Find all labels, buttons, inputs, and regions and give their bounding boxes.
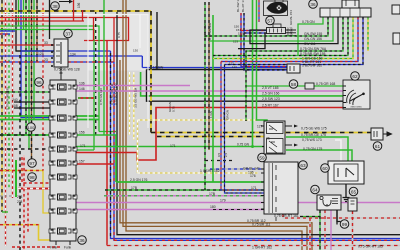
svg-text:176: 176 [250,174,256,178]
wire BL-RT stub y34 [0,33,10,35]
wire RT-WS vertical x24 bottom [23,155,25,250]
svg-text:171: 171 [80,144,86,148]
wire BL to box37 pin y56 and beyond [0,56,287,68]
wire SW 110 elbow and comp62 black feed [147,12,344,101]
svg-text:2,5: 2,5 [224,152,228,157]
svg-text:146: 146 [79,87,85,91]
wire GN-SW 17B y190 [105,189,265,191]
wire SW to box37 pin y51 [16,50,54,52]
A1 row fuse y211 [58,208,67,214]
circle 61 [373,142,382,151]
wire GE-RT elbow2 bottom [0,225,50,240]
svg-text:240: 240 [12,98,18,102]
wire GE-SW border vertical x151 [150,11,152,133]
svg-text:0,75 GN-WS 190: 0,75 GN-WS 190 [6,87,10,110]
wire VT x331 [330,210,332,250]
svg-text:1 GR-RT 162: 1 GR-RT 162 [252,246,272,250]
svg-text:0,75 BR 111: 0,75 BR 111 [252,223,270,227]
wire GN right pin y119.5 [76,119,99,121]
wire GR-BL dashed y170.8 [210,168,264,170]
wire BR-SW dash vertical x209 [208,2,210,150]
wire GN vertical x104 to comp62 green [103,0,105,135]
svg-text:100: 100 [28,125,35,130]
wire GN vertical x18.5 joins green y26 [18,0,20,26]
wire BL-WS dash vertical x221 [221,62,265,191]
A1 row fuse y102 [58,99,67,105]
comp58 box [287,64,300,73]
A1 row fuse y87 [58,84,67,90]
svg-text:BL-SW 112: BL-SW 112 [236,0,240,12]
right edge small box2 [393,33,400,44]
svg-text:113: 113 [232,65,237,69]
svg-text:61: 61 [375,144,381,149]
circle 100 [27,123,36,132]
svg-text:GR-GN: GR-GN [226,110,230,120]
circle 59 [258,153,267,162]
circle 38 [51,2,60,11]
wire RT dashed y170.5 with GE under [0,170,43,172]
svg-text:59: 59 [259,156,265,161]
svg-text:1 10-SW: 1 10-SW [150,66,164,70]
wire BL-RT 161 y63 [221,17,358,62]
wire BL-SW dash conn57 y35 to comp58 [244,13,287,70]
wire WS horizontal y14.5 [0,14,88,16]
svg-text:GN-GN 156: GN-GN 156 [304,37,322,41]
svg-text:GR-BL 154: GR-BL 154 [289,10,293,25]
svg-text:171: 171 [251,186,257,190]
comp59 pins [261,126,292,147]
wire GN to comp60 b [286,150,352,161]
svg-text:156: 156 [79,131,85,135]
wire GN-SW 76A y51 [246,17,343,121]
wire RT-WS vertical x12.5 [12,0,14,198]
svg-text:36: 36 [310,2,316,7]
wire SW dashed into box pin y149 [0,148,50,150]
light interior region [89,15,149,71]
wire SW comp65 to circle99 [337,210,341,222]
svg-text:0,75: 0,75 [117,32,121,38]
wire RT-GN dashed y98 from box [78,97,94,99]
wire BL-SW dash vertical x224.5 [225,65,266,194]
wire GE-SW vertical x2 [1,0,3,212]
wire BL-SW 162 y67 [225,17,364,65]
pump M57 icon [264,1,288,16]
wire GN row135 elbow down [76,135,116,182]
wire GN vertical x213 long [212,15,214,182]
wire GN-SW vertical x26 to box pin row135 [25,0,27,135]
svg-text:60: 60 [322,166,328,171]
wire RT row163 to comp62 [76,108,343,161]
wire BL-RT y62 through box37 [0,61,114,63]
wire VT y195.5 [104,195,265,197]
top right partial box [392,5,400,14]
svg-text:63: 63 [300,163,306,168]
wire GN horizontal y26 [0,26,116,132]
svg-text:Funk: Funk [64,246,71,250]
svg-text:130: 130 [133,49,138,53]
svg-text:62: 62 [352,74,358,79]
wire GN vertical x34 [33,0,35,120]
wire SW 111 y46 [238,17,338,49]
wire SW-dash vertical x95.7 [95,12,97,135]
wire RT vertical x114 [113,18,115,63]
svg-text:0,75 GE-WS 175: 0,75 GE-WS 175 [301,127,327,131]
A1 row fuse y177 [58,174,67,180]
svg-text:33: 33 [44,41,48,45]
A1 bottom stubs [56,241,70,245]
A1 pin marks left [51,86,54,230]
A1 row fuse y149 [58,146,67,152]
A1 row fuse y197 [58,194,67,200]
wire RT horizontal y17.5 [0,18,129,41]
A1 pin marks right [73,86,76,230]
svg-text:136: 136 [77,2,81,8]
wire WS 173 to comp60 [335,140,341,161]
svg-text:171: 171 [170,144,176,148]
svg-text:17B: 17B [131,186,138,190]
wire RT-WS dashed bottom y247 [12,246,60,248]
wire RT-WS group dash 97-98 [22,157,50,183]
wire GN 0,75 y24 [298,17,323,56]
wire GE-WS vertical x133.8 [133,72,135,140]
svg-text:0,75: 0,75 [287,32,293,36]
comp64 motor box [317,195,341,210]
wire GN horizontal y29.5 [0,30,94,151]
svg-text:134: 134 [70,53,76,57]
wire BL-RT dash conn57 y32 to comp58 [241,13,287,67]
wire GE-WS vertical x129.5 [129,72,131,135]
GR168 inline box [305,83,314,89]
wire BL-RT vertical x114b to bottom dashed [114,62,400,240]
wire VT long y202.5 [75,202,400,204]
wire GE elbow into box pin y233 [43,171,50,214]
wire RT mid vertical x93 [93,18,95,41]
svg-text:0,75 GE-WS 128: 0,75 GE-WS 128 [54,68,80,72]
wire WS inner border [88,15,148,129]
wire GR-RT x352 comp65 drop [352,211,354,250]
svg-text:2,5 VT 165: 2,5 VT 165 [262,86,279,90]
wire RT-WS vertical x28 bottom [27,190,29,232]
control unit A1 box [50,80,76,241]
wire SW x337 [336,210,338,225]
svg-text:SW 111: SW 111 [304,42,316,46]
svg-text:157: 157 [79,160,85,164]
wire BR-SW vertical x31.5 [31,0,33,163]
wire GE-WS vertical x137.5 [137,120,139,173]
wire SW arrow to node 136 top [59,1,69,3]
svg-text:0,75 BR-GE 175: 0,75 BR-GE 175 [301,133,326,137]
wire RT row163 stub [76,163,114,165]
wire BL vertical x21 to box pin y124 [21,0,50,118]
svg-text:96: 96 [36,80,42,85]
wire SW pin drop to box37 [49,0,51,39]
wire GE-SW bus second y136.5 [157,136,264,138]
svg-text:2,5 GN 166: 2,5 GN 166 [262,91,279,95]
svg-text:99: 99 [342,222,348,227]
connector X57 [273,24,281,28]
wire SW dash vertical x20 bottom [19,55,21,250]
svg-text:0,75 BR-SW: 0,75 BR-SW [203,23,207,40]
wire BR vertical x124.5 to bottom band [123,0,307,250]
wire BL-RT dash vertical x259 [258,0,260,22]
svg-text:136: 136 [79,82,85,86]
wire GN-WS vertical x9 [8,0,10,188]
connector pins box37 [51,44,53,67]
circle 58 [289,80,298,89]
wire SW vertical x117 to bottom black [117,12,400,235]
wire BR vertical x127.5 [126,0,302,250]
svg-text:179: 179 [220,199,226,203]
wire RT to box37 pin y45 [0,44,54,46]
A1 row fuse y135 [58,132,67,138]
wire GR dashed stub y196 [0,195,12,197]
wire SW dash y160.5 [205,160,233,162]
A1 pin squares [49,85,53,89]
wire BR vertical x121.5 to bottom band [120,60,312,250]
wire GN 156 y41 [209,17,333,41]
wire GN-SW 155 y36 [205,17,328,36]
svg-text:2,5 GN 176: 2,5 GN 176 [130,178,147,182]
svg-text:1 BL-SW 162: 1 BL-SW 162 [302,64,322,68]
svg-text:3,5 GE-WS 1M: 3,5 GE-WS 1M [134,87,138,108]
svg-text:17B: 17B [209,192,216,196]
wire VT y91.5 to comp62 [76,90,343,92]
wire RT-WS dashed y189 left [18,188,52,190]
wire GR 168 to comp62 top [247,85,344,87]
A1 row fuse y118 [58,115,67,121]
wire VT y209 [75,209,265,211]
svg-text:2,5 RT 167: 2,5 RT 167 [262,103,279,107]
comp60 relay box [328,161,364,184]
WIRES-LEFTBUS [0,0,287,250]
comp61 box [371,128,383,140]
wire GN vertical x249 long [252,0,254,147]
svg-text:127: 127 [257,125,263,129]
wire SW box37 to A1 [60,67,63,80]
svg-text:0,75 GR-RT 165: 0,75 GR-RT 165 [358,245,383,249]
svg-text:152: 152 [238,32,243,36]
circle 36b [78,236,87,245]
svg-text:65: 65 [351,190,357,195]
svg-text:108: 108 [12,104,18,108]
circle 57 [266,16,275,25]
circle 96 [35,78,44,87]
svg-text:0,75 GN-SW: 0,75 GN-SW [208,23,212,40]
wire GN vertical x29 to box pin row149 [28,0,30,149]
comp36 main box [320,8,371,17]
A1 row fuse y163 [58,160,67,166]
wire GE-WS dashed y173 [138,172,259,174]
svg-text:xxxx xxxx: xxxx xxxx [350,106,362,109]
wire GR-RT dashed from comp99 box [283,214,400,218]
svg-text:0,75 BL-GR 110: 0,75 BL-GR 110 [113,83,117,105]
svg-text:38: 38 [52,4,58,9]
svg-text:2?8: 2?8 [17,195,23,199]
svg-text:0,75 GN 120: 0,75 GN 120 [99,88,103,105]
svg-text:57: 57 [267,19,273,24]
comp59 relay upper [267,123,284,134]
svg-text:GN-SW 155: GN-SW 155 [304,32,322,36]
wire BR-SW 155 y56 [213,17,348,56]
wire GN-GE 160 y60 [213,17,353,59]
svg-text:238: 238 [17,200,23,204]
circle 97 [28,159,37,168]
wire BR-SW vertical x37 [36,0,38,62]
relay K37 box [54,39,68,67]
wire GN vertical x16 bottom [15,160,17,197]
comp62 blower box [343,80,370,109]
circle 64 [311,185,320,194]
svg-text:36: 36 [79,238,85,243]
circle 62 [351,72,360,81]
wire SW comp60 ground drop [343,184,350,202]
wire GN-SW into box pin y92 [0,91,50,93]
svg-text:26: 26 [266,137,270,141]
circle 99 [340,220,349,229]
svg-text:0,75 GN 179: 0,75 GN 179 [303,147,322,151]
wire GR-RT x325 [324,210,326,250]
wire GN-SW x320 [300,210,320,250]
wire BL stub y31 [0,30,15,32]
circle 60 [321,164,330,173]
svg-text:Funk: Funk [50,246,57,250]
svg-text:0,75 GN-SW 76A: 0,75 GN-SW 76A [300,47,327,51]
svg-text:0,75 BR-SW 155: 0,75 BR-SW 155 [300,52,326,56]
svg-text:0,75 GN: 0,75 GN [302,20,315,24]
svg-text:0,75 GN: 0,75 GN [237,143,250,147]
wire BL y51 to x110.5 [21,50,111,52]
svg-text:23: 23 [44,58,48,62]
A1 row fuse y231 [58,228,67,234]
comp59 box [264,121,285,154]
wire GN into box pin y119 [0,119,50,121]
circle 36 top [309,0,318,8]
svg-text:37: 37 [65,32,71,37]
wire GN junction x249 [251,145,254,148]
circle 63 partial [299,161,308,170]
wire GE-SW bus horizontal y11 [0,10,151,12]
wire GN-SW left bottom x2 end [2,211,8,213]
wire RT-WS vertical x40.5 [42,0,44,171]
svg-text:58: 58 [291,82,297,87]
wire GN to comp60 a [286,137,348,161]
wire GN 176 y182 [116,181,264,183]
wire VT y86 from box [76,85,190,87]
svg-text:1 GE/RT 162: 1 GE/RT 162 [200,169,220,173]
wire RT vertical x107 to bottom grey-red dashed [106,41,108,246]
relay K36 top box [342,0,359,8]
svg-text:0,75 WS 173: 0,75 WS 173 [302,138,322,142]
wire GN vertical x23.5 joins green y29.5 [23,0,25,30]
svg-text:180: 180 [210,205,216,209]
wire GN-SW dash vertical x205 [204,2,206,190]
svg-text:98: 98 [29,175,35,180]
wire conn57 right stubs [286,30,297,36]
comp65 box [348,198,357,211]
svg-text:2,5 SW 123: 2,5 SW 123 [262,97,280,101]
wire GR-RT x310 stub [309,218,311,250]
svg-text:0,75: 0,75 [172,106,176,112]
connector X16 bottom box [264,162,298,214]
wire GN right pin y116 [76,115,99,117]
svg-text:64: 64 [312,188,318,193]
svg-text:97: 97 [29,161,35,166]
svg-text:0,5: 0,5 [217,152,221,157]
wire GN into box pin y116 [0,115,50,117]
svg-text:0,75 GR-RT 161: 0,75 GR-RT 161 [274,214,299,218]
svg-text:0,75 GR 168: 0,75 GR 168 [316,82,335,86]
wire RT loop y21 [0,0,84,21]
circle 65 [349,187,358,196]
comp59 relay lower [267,139,284,154]
wire SW into box pin y108 [14,107,50,109]
wire SW vertical x16 to box37 black [16,0,54,51]
wire GE-GN dash right x368 [367,17,369,51]
wire RT stub x82.5 [82,10,84,21]
svg-text:1 GN: 1 GN [209,111,213,118]
svg-text:128: 128 [38,52,44,56]
wire SW into box pin y102 [14,101,50,103]
svg-text:153: 153 [233,40,238,44]
circle 98 [28,173,37,182]
svg-text:BL-RT 140: BL-RT 140 [241,0,245,12]
wire BL-SW vertical x110.5 to bottom blue [111,51,400,239]
wire GN 171 row149 to comp59 [76,146,264,148]
wire GN-SW into box pin y135 [0,134,50,136]
wire GE-SW bus horizontal y131 to comp61 [151,132,371,134]
circle 37 [64,29,73,38]
wire RT-WS vertical x5.5 [5,0,7,246]
